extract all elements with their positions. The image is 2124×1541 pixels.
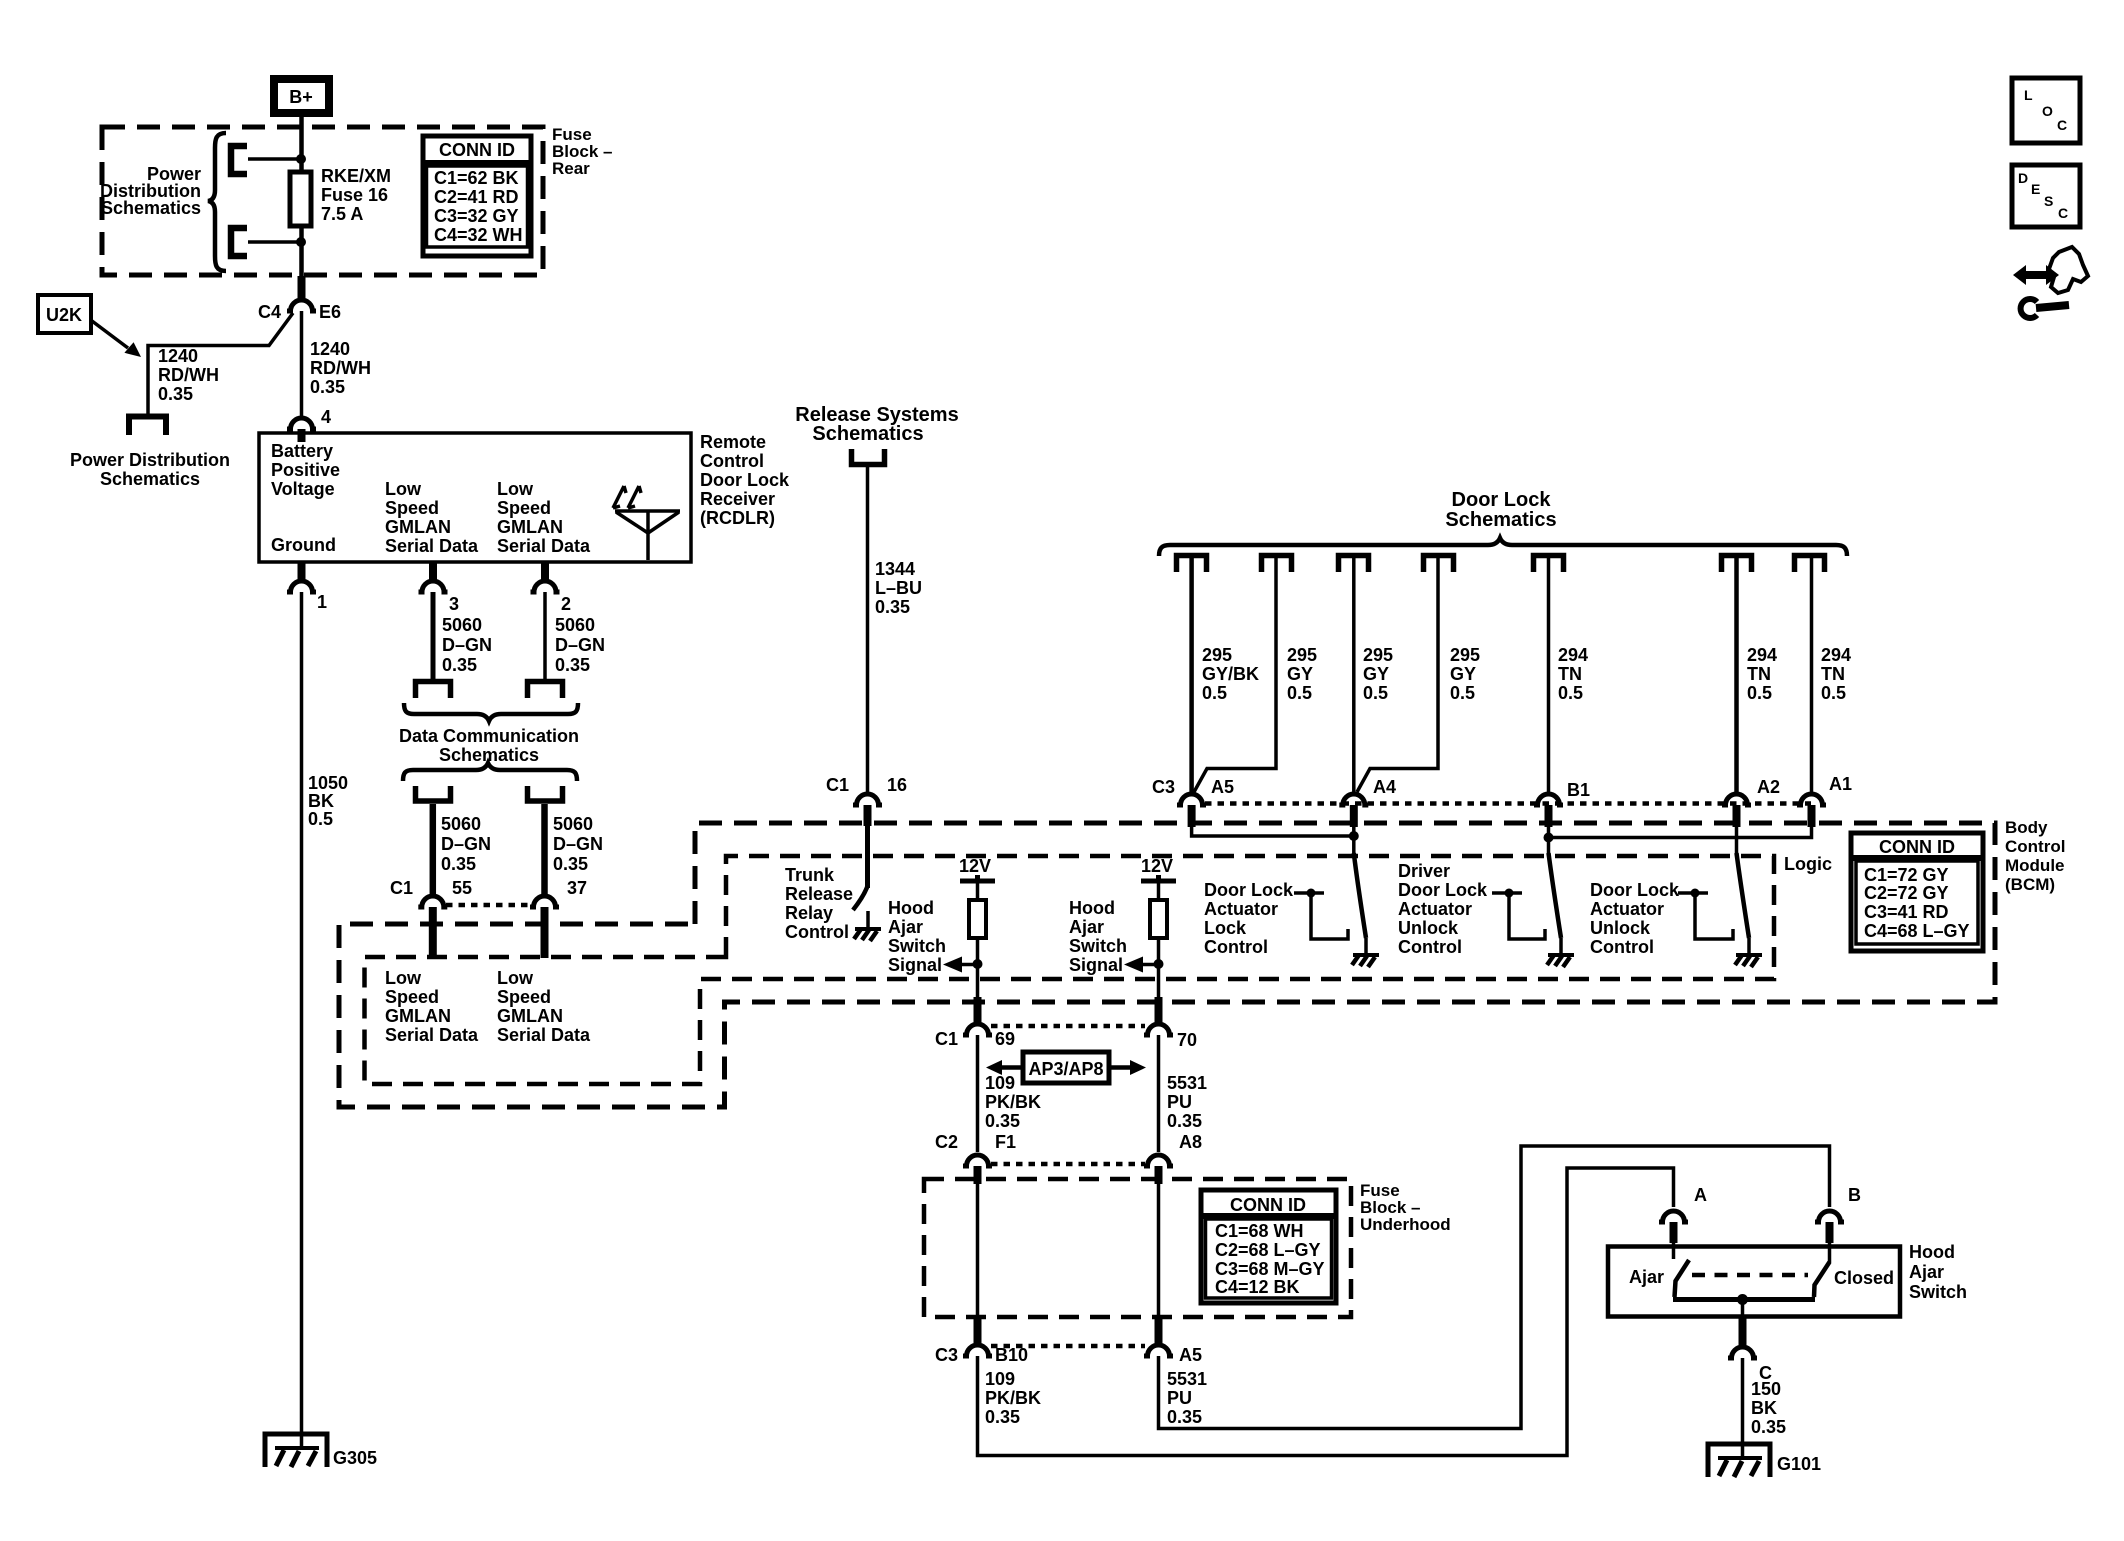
svg-text:Battery: Battery [271, 441, 333, 461]
junction B1/A1 [1544, 833, 1554, 843]
fuse block underhood dashed outline [924, 1179, 1351, 1317]
svg-text:Serial Data: Serial Data [497, 536, 591, 556]
svg-text:D–GN: D–GN [441, 834, 491, 854]
svg-text:Speed: Speed [497, 987, 551, 1007]
svg-text:294: 294 [1747, 645, 1777, 665]
wire E6 to RCDLR pin 4 [300, 311, 304, 417]
svg-text:Control: Control [785, 922, 849, 942]
svg-text:G101: G101 [1777, 1454, 1821, 1474]
off-page terminal door lock 7 [1795, 556, 1825, 573]
svg-text:294: 294 [1558, 645, 1588, 665]
wire A8 through fuse block to A5 [1157, 1184, 1161, 1340]
wire release systems to connector C1-16 [866, 466, 870, 793]
svg-text:D: D [2018, 170, 2028, 186]
arrow AP3/AP8 right [1109, 1060, 1146, 1075]
connector B (hood ajar switch) [1815, 1211, 1844, 1222]
label Door Lock Actuator Unlock Control [1590, 880, 1680, 957]
svg-text:O: O [2042, 103, 2053, 119]
label 5531 PU 0.35 (upper) [1167, 1073, 1207, 1131]
pin stub A into switch [1670, 1222, 1678, 1243]
svg-text:295: 295 [1363, 645, 1393, 665]
svg-text:Door Lock: Door Lock [1204, 880, 1294, 900]
label Low Speed GMLAN Serial Data (BCM 37) [497, 968, 591, 1045]
svg-text:Door Lock: Door Lock [700, 470, 790, 490]
brace over lower terminals [403, 763, 577, 781]
label 109 PK/BK 0.35 (lower) [985, 1369, 1041, 1427]
coil contact path (driver unlock) [1509, 893, 1545, 939]
label 5060 D-GN 0.35 (pin 2) [555, 615, 605, 675]
svg-text:B+: B+ [289, 87, 313, 107]
wire C to G101 [1741, 1358, 1745, 1458]
antenna symbol inside RCDLR [613, 486, 680, 560]
connector pin 70 [1144, 1024, 1173, 1035]
wire resistor to junction [976, 938, 980, 1002]
svg-text:295: 295 [1287, 645, 1317, 665]
CONN ID table (BCM) [1851, 833, 1983, 951]
wire 295 GY to connector A4 [1352, 558, 1356, 793]
svg-text:Low: Low [497, 968, 534, 988]
svg-text:C1: C1 [390, 878, 413, 898]
off-page terminal door lock 1 [1177, 556, 1207, 573]
svg-text:Schematics: Schematics [101, 198, 201, 218]
connector C4/E6 [287, 300, 316, 311]
connector pin A1 [1797, 794, 1826, 805]
svg-text:Speed: Speed [385, 498, 439, 518]
svg-text:C2=41 RD: C2=41 RD [434, 187, 519, 207]
wire pin 2 to data communication [543, 592, 547, 681]
dotted connector line C3 row [1205, 801, 1811, 806]
connector pin 1 [287, 581, 316, 592]
label 295 GY 0.5 (2nd col) [1287, 645, 1317, 703]
label 1344 L-BU 0.35 [875, 559, 922, 617]
svg-text:Actuator: Actuator [1204, 899, 1278, 919]
label Hood Ajar Switch [1909, 1242, 1967, 1302]
node AP3/AP8 splice pack [1023, 1052, 1109, 1083]
pin stub ground pin [298, 562, 306, 580]
ground (driver unlock) [1547, 938, 1574, 967]
pin stub A1 [1808, 805, 1816, 827]
svg-text:Control: Control [1398, 937, 1462, 957]
svg-text:PK/BK: PK/BK [985, 1388, 1041, 1408]
svg-text:294: 294 [1821, 645, 1851, 665]
node B+ (battery positive terminal box) [270, 75, 333, 117]
connector pin stub through fuse block edge [298, 276, 306, 299]
label 295 GY 0.5 (4th col) [1450, 645, 1480, 703]
svg-text:295: 295 [1450, 645, 1480, 665]
op-amp RCDLR module box [259, 433, 691, 562]
junction A5/A4 [1349, 831, 1359, 841]
label Remote Control Door Lock Receiver (RCDLR) [700, 432, 790, 528]
wire lower terminal to connector C1-55 [430, 804, 437, 896]
junction driver unlock control [1505, 889, 1514, 898]
svg-text:37: 37 [567, 878, 587, 898]
label 295 GY 0.5 (3rd col) [1363, 645, 1393, 703]
svg-text:0.5: 0.5 [1747, 683, 1772, 703]
junction lock control [1307, 889, 1316, 898]
svg-text:Switch: Switch [888, 936, 946, 956]
svg-text:Hood: Hood [888, 898, 934, 918]
svg-text:Speed: Speed [497, 498, 551, 518]
svg-text:A1: A1 [1829, 774, 1852, 794]
connector C3 pin A5 [1177, 794, 1206, 805]
connector 4 at RCDLR [287, 418, 316, 429]
node 12V feed (70) [1141, 856, 1176, 881]
svg-text:1050: 1050 [308, 773, 348, 793]
label 5060 D-GN 0.35 (37 wire) [553, 814, 603, 874]
svg-text:Rear: Rear [552, 159, 590, 178]
icon LOC legend box [2012, 78, 2080, 143]
svg-text:A: A [1694, 1185, 1707, 1205]
pin stub C out of switch [1739, 1317, 1747, 1346]
label 1240 RD/WH 0.35 (E6 wire) [310, 339, 371, 397]
svg-text:GY: GY [1287, 664, 1313, 684]
svg-text:0.5: 0.5 [308, 809, 333, 829]
label Trunk Release Relay Control [785, 865, 853, 942]
svg-text:Control: Control [700, 451, 764, 471]
svg-text:C2=68 L–GY: C2=68 L–GY [1215, 1240, 1321, 1260]
transistor switch trunk release relay control [853, 886, 868, 910]
svg-text:Lock: Lock [1204, 918, 1247, 938]
wire A5/A4 join [1192, 827, 1354, 836]
wire A1/B1 join [1549, 827, 1812, 838]
label Hood Ajar Switch Signal (70) [1069, 898, 1127, 975]
label Low Speed GMLAN Serial Data (BCM 55) [385, 968, 479, 1045]
label Door Lock Actuator Lock Control [1204, 880, 1294, 957]
wire 294 TN to connector A1 [1810, 558, 1814, 793]
svg-text:Unlock: Unlock [1590, 918, 1651, 938]
svg-text:5060: 5060 [553, 814, 593, 834]
label 1240 RD/WH 0.35 (C4 branch) [158, 346, 219, 404]
svg-text:C4=32 WH: C4=32 WH [434, 225, 523, 245]
transistor switch driver unlock [1549, 853, 1562, 938]
svg-text:A5: A5 [1211, 777, 1234, 797]
brace under upper terminals [404, 703, 578, 721]
svg-text:GMLAN: GMLAN [497, 517, 563, 537]
CONN ID table (fuse block rear) [423, 136, 531, 256]
svg-text:GY: GY [1450, 664, 1476, 684]
svg-text:C1=72 GY: C1=72 GY [1864, 865, 1949, 885]
svg-text:7.5 A: 7.5 A [321, 204, 363, 224]
label Hood Ajar Switch Signal (69) [888, 898, 946, 975]
fuse terminal bracket upper [231, 146, 247, 174]
pin stub B1 [1545, 805, 1553, 827]
arrow hood ajar switch signal (70) [1141, 963, 1158, 967]
wire F1 through fuse block to B10 [976, 1184, 980, 1340]
svg-text:C1=62 BK: C1=62 BK [434, 168, 519, 188]
svg-text:0.5: 0.5 [1363, 683, 1388, 703]
label 109 PK/BK 0.35 (upper) [985, 1073, 1041, 1131]
off-page terminal (power distribution schematics) [129, 417, 166, 436]
svg-text:CONN ID: CONN ID [1230, 1195, 1306, 1215]
svg-text:B: B [1848, 1185, 1861, 1205]
connector C1 pin 55 [418, 896, 447, 907]
svg-text:Low: Low [385, 968, 422, 988]
svg-text:B1: B1 [1567, 780, 1590, 800]
off-page terminal data comm right lower [528, 786, 563, 801]
svg-text:L–BU: L–BU [875, 578, 922, 598]
connector C1 pin 69 [963, 1024, 992, 1035]
svg-text:C: C [2057, 117, 2067, 133]
svg-text:Speed: Speed [385, 987, 439, 1007]
svg-text:0.5: 0.5 [1450, 683, 1475, 703]
svg-text:U2K: U2K [46, 305, 82, 325]
svg-text:Module: Module [2005, 856, 2065, 875]
svg-text:BK: BK [308, 791, 334, 811]
icon double arrow with wrench [2013, 247, 2088, 318]
off-page terminal door lock 4 [1424, 556, 1454, 573]
pin stub A8 into fuse block [1155, 1166, 1163, 1184]
switch blade ajar contact [1675, 1260, 1690, 1297]
wire label to driver junction (driver unlock) [1492, 891, 1522, 895]
pin stub A5 [1188, 805, 1196, 827]
off-page terminal data comm right upper [528, 682, 563, 699]
wire 69 to C2-F1 [976, 1035, 980, 1152]
pin stub pin 2 [541, 562, 549, 580]
svg-text:Fuse 16: Fuse 16 [321, 185, 388, 205]
junction unlock control [1691, 889, 1700, 898]
svg-text:Ajar: Ajar [1909, 1262, 1944, 1282]
svg-text:Control: Control [1590, 937, 1654, 957]
connector C (hood ajar switch) [1728, 1347, 1757, 1358]
svg-text:Schematics: Schematics [1445, 509, 1556, 531]
svg-text:F1: F1 [995, 1132, 1016, 1152]
svg-text:S: S [2044, 193, 2053, 209]
svg-text:C3=41 RD: C3=41 RD [1864, 902, 1949, 922]
wire C1-16 into logic [865, 826, 870, 888]
ground (trunk release driver) [854, 911, 881, 941]
svg-text:C1=68 WH: C1=68 WH [1215, 1221, 1304, 1241]
wire ground pin to G305 [300, 592, 304, 1447]
wire 295 GY jog to connector A5 [1194, 558, 1276, 792]
wire common to pin C [1741, 1300, 1745, 1318]
svg-text:D–GN: D–GN [555, 635, 605, 655]
svg-text:0.35: 0.35 [310, 377, 345, 397]
svg-text:5531: 5531 [1167, 1369, 1207, 1389]
svg-text:0.35: 0.35 [441, 854, 476, 874]
svg-text:0.35: 0.35 [1167, 1407, 1202, 1427]
arrow AP3/AP8 left [986, 1060, 1023, 1075]
svg-text:Remote: Remote [700, 432, 766, 452]
svg-text:0.35: 0.35 [442, 655, 477, 675]
fuse RKE/XM Fuse 16 7.5 A [290, 172, 311, 226]
label 294 TN 0.5 (6th col) [1747, 645, 1777, 703]
svg-text:Control: Control [1204, 937, 1268, 957]
pin stub 69 out of BCM [974, 997, 982, 1023]
wire B+ to fuse to connector C4/E6 [299, 117, 304, 298]
svg-text:Hood: Hood [1909, 1242, 1955, 1262]
svg-text:Door Lock: Door Lock [1398, 880, 1488, 900]
svg-text:G305: G305 [333, 1448, 377, 1468]
svg-text:Serial Data: Serial Data [385, 1025, 479, 1045]
svg-text:E6: E6 [319, 302, 341, 322]
svg-text:TN: TN [1747, 664, 1771, 684]
svg-text:12V: 12V [1141, 856, 1173, 876]
svg-text:Control: Control [2005, 837, 2065, 856]
dashed link between blades [1692, 1273, 1808, 1278]
svg-text:C3: C3 [935, 1345, 958, 1365]
label Power Distribution Schematics (fuse block) [100, 164, 201, 218]
svg-text:C2: C2 [935, 1132, 958, 1152]
ground (unlock driver) [1735, 938, 1762, 967]
svg-text:Actuator: Actuator [1398, 899, 1472, 919]
coil contact path (unlock) [1695, 893, 1733, 939]
coil contact path (lock) [1311, 893, 1348, 939]
svg-text:Driver: Driver [1398, 861, 1450, 881]
svg-text:Ground: Ground [271, 535, 336, 555]
svg-text:GY/BK: GY/BK [1202, 664, 1259, 684]
label Battery Positive Voltage [271, 441, 340, 499]
svg-text:BK: BK [1751, 1398, 1777, 1418]
label Low Speed GMLAN Serial Data (pin 2) [497, 479, 591, 556]
svg-text:150: 150 [1751, 1379, 1781, 1399]
pin stub F1 into fuse block [974, 1166, 982, 1184]
svg-text:Signal: Signal [1069, 955, 1123, 975]
off-page terminal door lock 6 [1722, 556, 1752, 573]
svg-text:69: 69 [995, 1029, 1015, 1049]
node 12V feed (69) [959, 856, 995, 881]
dotted connector line between 55 and 37 [446, 903, 531, 908]
svg-text:2: 2 [561, 594, 571, 614]
label Data Communication Schematics [399, 726, 579, 765]
svg-text:5531: 5531 [1167, 1073, 1207, 1093]
svg-text:PU: PU [1167, 1092, 1192, 1112]
label Door Lock Schematics [1445, 489, 1556, 531]
brace door lock schematics [1159, 538, 1847, 556]
label Body Control Module (BCM) [2005, 818, 2065, 894]
svg-text:C3=68 M–GY: C3=68 M–GY [1215, 1259, 1325, 1279]
svg-text:A5: A5 [1179, 1345, 1202, 1365]
wire A2 to unlock driver [1735, 827, 1739, 854]
ground G305 [265, 1434, 327, 1467]
svg-text:0.5: 0.5 [1558, 683, 1583, 703]
wire 12V to resistor (70) [1157, 881, 1161, 902]
svg-text:0.35: 0.35 [985, 1111, 1020, 1131]
body control module outer dashed outline [339, 823, 1995, 1107]
pin stub A5 out of fuse block [1155, 1317, 1163, 1344]
pin stub B10 out of fuse block [974, 1317, 982, 1344]
wire 294 TN to connector B1 [1547, 558, 1551, 793]
junction upper fuse node [296, 154, 306, 164]
wire 295 GY jog to connector A4 [1357, 558, 1438, 792]
label 294 TN 0.5 (7th col) [1821, 645, 1851, 703]
svg-text:0.35: 0.35 [1167, 1111, 1202, 1131]
wire B10 to hood ajar switch A [978, 1168, 1674, 1456]
svg-text:L: L [2024, 87, 2033, 103]
pin stub B into switch [1826, 1222, 1834, 1243]
svg-text:A8: A8 [1179, 1132, 1202, 1152]
svg-text:1240: 1240 [310, 339, 350, 359]
wire bracket upper to fuse node [248, 157, 301, 161]
svg-text:0.35: 0.35 [553, 854, 588, 874]
arrow from U2K to wire [92, 321, 128, 348]
svg-text:Closed: Closed [1834, 1268, 1894, 1288]
svg-text:295: 295 [1202, 645, 1232, 665]
svg-text:CONN ID: CONN ID [1879, 837, 1955, 857]
svg-text:C1: C1 [935, 1029, 958, 1049]
fuse block rear dashed outline [102, 127, 543, 275]
pin stub 16 into BCM [864, 805, 872, 826]
svg-text:Unlock: Unlock [1398, 918, 1459, 938]
wire resistor to junction (70) [1157, 938, 1161, 1002]
resistor pull-up (70) [1150, 900, 1167, 938]
svg-text:GY: GY [1363, 664, 1389, 684]
svg-text:12V: 12V [959, 856, 991, 876]
label 295 GY/BK 0.5 [1202, 645, 1259, 703]
svg-text:0.35: 0.35 [158, 384, 193, 404]
pin stub pin 3 [429, 562, 437, 580]
svg-text:1: 1 [317, 592, 327, 612]
arrow hood ajar switch signal (69) [960, 963, 977, 967]
svg-text:Ajar: Ajar [1069, 917, 1104, 937]
svg-text:Release: Release [785, 884, 853, 904]
connector pin 3 [419, 581, 448, 592]
svg-text:4: 4 [321, 407, 331, 427]
svg-text:C2=72 GY: C2=72 GY [1864, 883, 1949, 903]
svg-text:C3: C3 [1152, 777, 1175, 797]
svg-text:Door Lock: Door Lock [1452, 489, 1552, 511]
junction hood ajar signal (70) [1154, 959, 1164, 969]
wire bracket lower to fuse node [248, 240, 301, 244]
svg-text:3: 3 [449, 594, 459, 614]
fuse terminal bracket lower [231, 228, 247, 256]
svg-text:1344: 1344 [875, 559, 915, 579]
svg-text:Switch: Switch [1069, 936, 1127, 956]
connector pin 37 [530, 896, 559, 907]
svg-text:RD/WH: RD/WH [158, 365, 219, 385]
svg-text:D–GN: D–GN [442, 635, 492, 655]
svg-text:0.5: 0.5 [1821, 683, 1846, 703]
CONN ID table (fuse block underhood) [1201, 1190, 1336, 1303]
svg-text:16: 16 [887, 775, 907, 795]
wire lower terminal to connector 37 [541, 804, 548, 896]
node U2K reference box [38, 295, 91, 333]
svg-text:C: C [2058, 205, 2068, 221]
svg-text:RKE/XM: RKE/XM [321, 166, 391, 186]
wire contact A inside switch [1672, 1240, 1676, 1259]
svg-text:Trunk: Trunk [785, 865, 835, 885]
wire 294 TN to connector A2 [1734, 558, 1739, 793]
svg-text:C4=68 L–GY: C4=68 L–GY [1864, 921, 1970, 941]
svg-text:Serial Data: Serial Data [385, 536, 479, 556]
svg-text:Ajar: Ajar [888, 917, 923, 937]
logic inner dashed outline [365, 856, 1775, 1084]
pin stub A4 [1350, 805, 1358, 827]
junction switch common [1737, 1294, 1748, 1305]
svg-text:Relay: Relay [785, 903, 833, 923]
svg-text:0.5: 0.5 [1202, 683, 1227, 703]
svg-text:C3=32 GY: C3=32 GY [434, 206, 519, 226]
wire C4 branch to power distribution [148, 313, 293, 414]
off-page terminal data comm left lower [416, 786, 451, 801]
label Low Speed GMLAN Serial Data (pin 3) [385, 479, 479, 556]
junction lower fuse node [296, 237, 306, 247]
svg-text:Power Distribution: Power Distribution [70, 450, 230, 470]
transistor switch lock driver [1354, 853, 1366, 938]
connector C3 pin B10 [963, 1345, 992, 1356]
label 5531 PU 0.35 (lower) [1167, 1369, 1207, 1427]
icon DESC legend box [2012, 165, 2080, 227]
label Fuse Block - Rear [552, 125, 612, 178]
svg-text:(BCM): (BCM) [2005, 875, 2055, 894]
dotted connector line B10-A5 [991, 1344, 1145, 1349]
junction hood ajar signal (69) [973, 959, 983, 969]
ground G101 [1708, 1444, 1770, 1477]
off-page terminal door lock 3 [1339, 556, 1369, 573]
label Driver Door Lock Actuator Unlock Control [1398, 861, 1488, 957]
label 5060 D-GN 0.35 (pin 3) [442, 615, 492, 675]
connector A (hood ajar switch) [1659, 1211, 1688, 1222]
svg-text:Positive: Positive [271, 460, 340, 480]
